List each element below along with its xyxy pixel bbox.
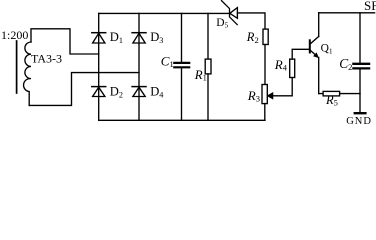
svg-text:Q1: Q1 <box>321 43 333 56</box>
svg-text:TA3-3: TA3-3 <box>31 51 62 65</box>
svg-text:D5: D5 <box>216 17 228 30</box>
svg-text:GND: GND <box>346 116 372 127</box>
svg-text:D1: D1 <box>110 30 123 45</box>
svg-text:D4: D4 <box>150 85 163 100</box>
svg-text:R2: R2 <box>246 30 259 45</box>
svg-text:R4: R4 <box>274 57 288 73</box>
svg-text:R3: R3 <box>247 88 260 104</box>
svg-text:SF: SF <box>364 0 376 13</box>
svg-text:C2: C2 <box>339 56 352 72</box>
svg-text:1:200: 1:200 <box>1 28 28 42</box>
svg-text:D3: D3 <box>150 30 163 45</box>
svg-text:D2: D2 <box>110 85 123 100</box>
svg-text:C1: C1 <box>161 53 174 69</box>
